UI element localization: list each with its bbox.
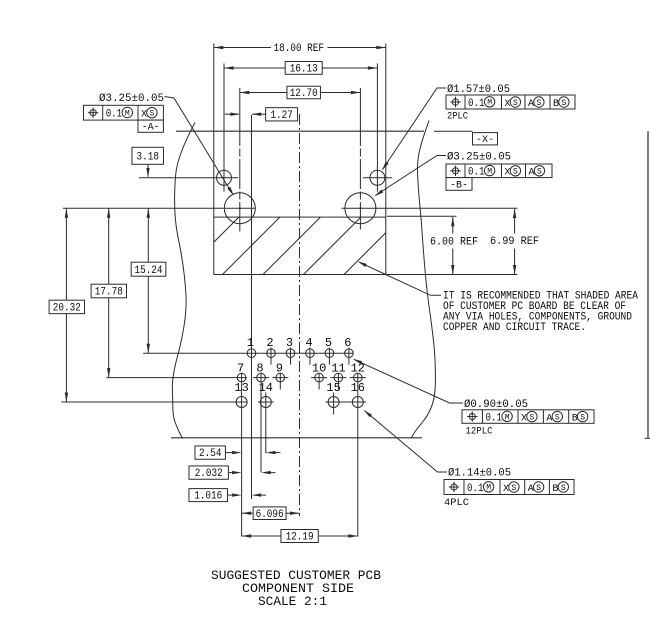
extension line pin 7/13 column xyxy=(241,373,243,537)
dimension 6.096 xyxy=(242,512,254,514)
dimension 17.78 xyxy=(108,208,110,284)
svg-text:0.1: 0.1 xyxy=(468,98,485,110)
pin 13 hole xyxy=(236,397,247,408)
dimension 12.70 xyxy=(240,92,287,94)
svg-text:12.70: 12.70 xyxy=(290,88,318,100)
svg-text:1.016: 1.016 xyxy=(194,491,222,503)
board top edge (left of break) xyxy=(176,130,424,132)
pin 4 hole xyxy=(306,349,315,358)
dimension 1.27 xyxy=(225,113,239,115)
small mounting hole left (dia 1.57) xyxy=(217,170,232,185)
svg-text:S: S xyxy=(536,484,541,493)
svg-text:18.00 REF: 18.00 REF xyxy=(274,43,325,55)
svg-text:15.24: 15.24 xyxy=(135,265,163,277)
svg-text:20.32: 20.32 xyxy=(53,303,81,315)
dimension 6.00 REF extension line bottom (hatch bottom extended) xyxy=(386,274,518,276)
pin 11 hole xyxy=(334,373,343,382)
svg-text:COPPER AND CIRCUIT TRACE.: COPPER AND CIRCUIT TRACE. xyxy=(443,322,586,334)
svg-text:3.18: 3.18 xyxy=(136,151,159,163)
small hole left horizontal centerline / 3.18 extension xyxy=(139,177,238,179)
board bottom edge xyxy=(171,437,422,439)
right break line (wavy) xyxy=(412,121,436,438)
dimension 18.00 REF extension line right xyxy=(385,44,387,218)
svg-text:0.1: 0.1 xyxy=(486,412,503,424)
svg-text:A: A xyxy=(546,413,552,424)
dimension 18.00 REF extension line left xyxy=(213,44,215,218)
svg-text:S: S xyxy=(561,484,566,493)
dimension 16.13 xyxy=(224,67,285,69)
pin horizontal ticks rows 2-3 xyxy=(253,378,366,402)
svg-text:M: M xyxy=(487,99,492,108)
svg-text:4: 4 xyxy=(305,336,312,350)
dimension 2.032 xyxy=(189,466,228,480)
svg-text:S: S xyxy=(149,110,154,119)
svg-text:16.13: 16.13 xyxy=(290,64,318,76)
svg-text:-X-: -X- xyxy=(476,135,494,146)
svg-text:X: X xyxy=(521,413,527,424)
svg-text:12PLC: 12PLC xyxy=(466,426,493,437)
part vertical centerline xyxy=(299,114,301,516)
pin row 2 extension line xyxy=(106,377,247,379)
dimension 6.00 REF extension line top xyxy=(387,215,457,217)
dimension 18.00 REF xyxy=(214,47,271,49)
dimension 1.016 xyxy=(189,489,228,503)
leader to right small hole xyxy=(383,88,446,169)
small hole right horizontal centerline xyxy=(363,177,392,179)
dimension 6.00 REF xyxy=(452,217,454,234)
svg-text:S: S xyxy=(561,99,566,108)
leader to right large hole xyxy=(376,156,447,196)
svg-text:6.00 REF: 6.00 REF xyxy=(430,236,478,248)
svg-text:B: B xyxy=(572,413,578,424)
pin vertical ticks row 1 xyxy=(271,348,349,415)
svg-text:0.1: 0.1 xyxy=(106,109,123,121)
svg-text:-A-: -A- xyxy=(142,123,160,134)
pin 1 hole xyxy=(247,349,256,358)
svg-text:X: X xyxy=(505,99,511,110)
feature control frame (1.14 pins) xyxy=(444,480,574,495)
hatch diagonal lines xyxy=(182,217,403,275)
svg-text:2PLC: 2PLC xyxy=(447,112,468,123)
svg-text:6: 6 xyxy=(344,336,351,350)
svg-text:0.1: 0.1 xyxy=(467,483,484,495)
svg-text:17.78: 17.78 xyxy=(95,287,123,299)
svg-text:1.27: 1.27 xyxy=(270,110,293,122)
svg-text:Ø0.90±0.05: Ø0.90±0.05 xyxy=(464,399,528,411)
svg-text:8: 8 xyxy=(256,362,263,376)
svg-text:X: X xyxy=(505,168,511,179)
large mounting hole right (dia 3.25) xyxy=(345,193,376,224)
datum flag -A- xyxy=(138,120,163,132)
svg-text:S: S xyxy=(536,99,541,108)
dimension 1.27 extension line (pin column 1, full height) xyxy=(251,115,253,499)
pin 15 hole xyxy=(328,397,339,408)
dimension 6.99 REF xyxy=(514,209,516,234)
svg-text:S: S xyxy=(555,413,560,422)
pin 16 hole xyxy=(352,397,363,408)
svg-text:2: 2 xyxy=(266,336,273,350)
svg-text:2.032: 2.032 xyxy=(195,468,223,480)
left break line (wavy) xyxy=(172,123,195,439)
board right edge xyxy=(647,131,649,438)
svg-text:Ø3.25±0.05: Ø3.25±0.05 xyxy=(447,152,511,164)
small hole right vertical centerline / 16.13 extension xyxy=(376,64,378,192)
pin 12 hole xyxy=(354,373,363,382)
leader to left large hole xyxy=(165,97,232,194)
pin 10 hole xyxy=(315,373,324,382)
pin row 1 extension line xyxy=(143,352,353,354)
large hole left vertical centerline / 12.70 extension xyxy=(239,88,241,232)
svg-text:X: X xyxy=(503,484,509,495)
svg-text:S: S xyxy=(537,168,542,177)
note leader to shaded area xyxy=(359,262,441,295)
leader to pin 16 xyxy=(365,411,447,472)
pin 9 hole xyxy=(276,373,285,382)
svg-text:7: 7 xyxy=(237,362,244,376)
svg-text:X: X xyxy=(141,110,147,121)
pin 2 hole xyxy=(267,349,276,358)
svg-text:1: 1 xyxy=(247,336,254,350)
svg-text:M: M xyxy=(487,168,492,177)
svg-text:6.99 REF: 6.99 REF xyxy=(490,236,539,248)
extension line pin 14 column xyxy=(265,393,267,454)
large mounting hole left (dia 3.25) xyxy=(224,193,255,224)
svg-text:12.19: 12.19 xyxy=(286,532,314,544)
pin 5 hole xyxy=(325,349,334,358)
pin 8 hole xyxy=(257,373,266,382)
svg-text:S: S xyxy=(511,484,516,493)
extension line pin 12/16 column xyxy=(357,373,359,537)
svg-text:Ø1.14±0.05: Ø1.14±0.05 xyxy=(448,468,511,480)
small mounting hole right (dia 1.57) xyxy=(370,170,385,185)
extension line pin 8 column xyxy=(260,373,262,473)
leader to pin 6 xyxy=(354,359,463,403)
feature control frame (right large hole) xyxy=(446,164,552,179)
horizontal line through large hole centers (right segment, 6.99 extension) xyxy=(342,207,518,209)
large hole right vertical centerline / 12.70 extension xyxy=(359,88,361,230)
dimension 3.18 xyxy=(132,147,164,164)
svg-text:9: 9 xyxy=(276,362,283,376)
svg-text:5: 5 xyxy=(325,336,332,350)
datum flag -X- xyxy=(473,133,498,145)
board top edge (right of break, to datum X flag) xyxy=(434,130,473,132)
svg-text:4PLC: 4PLC xyxy=(444,498,469,509)
pin 6 hole xyxy=(345,349,354,358)
svg-text:S: S xyxy=(529,413,534,422)
pin 3 hole xyxy=(286,349,295,358)
svg-text:Ø1.57±0.05: Ø1.57±0.05 xyxy=(447,84,510,96)
dimension 12.19 xyxy=(242,535,281,537)
svg-text:S: S xyxy=(513,168,518,177)
feature control frame (0.90 pins) xyxy=(462,410,594,425)
svg-text:B: B xyxy=(552,484,558,495)
svg-text:A: A xyxy=(528,484,534,495)
svg-text:3: 3 xyxy=(286,336,293,350)
pin 7 hole xyxy=(237,373,246,382)
datum flag -B- xyxy=(446,178,472,191)
pin row 3 extension line xyxy=(61,401,247,403)
svg-text:Ø3.25±0.05: Ø3.25±0.05 xyxy=(99,93,164,105)
board bottom edge right nub xyxy=(645,437,650,439)
feature control frame (small holes) xyxy=(446,95,575,110)
svg-text:M: M xyxy=(505,413,510,422)
dimension 2.54 xyxy=(195,446,225,460)
small hole left vertical centerline / 16.13 extension xyxy=(223,64,225,192)
svg-text:M: M xyxy=(486,484,491,493)
svg-text:S: S xyxy=(580,413,585,422)
pin 14 hole xyxy=(260,397,271,408)
horizontal line through large hole centers (left segment) xyxy=(63,207,255,209)
svg-text:A: A xyxy=(529,168,535,179)
svg-text:-B-: -B- xyxy=(450,181,468,192)
svg-text:M: M xyxy=(125,109,130,118)
svg-text:6.096: 6.096 xyxy=(256,509,284,521)
svg-text:B: B xyxy=(553,99,559,110)
dimension 15.24 xyxy=(147,208,149,262)
shaded keep-out area rectangle xyxy=(214,217,386,274)
dimension 20.32 xyxy=(65,208,67,300)
feature control frame (left hole) xyxy=(84,105,164,120)
svg-text:SCALE 2:1: SCALE 2:1 xyxy=(258,594,327,609)
svg-text:2.54: 2.54 xyxy=(199,448,222,460)
svg-text:A: A xyxy=(528,99,534,110)
svg-text:0.1: 0.1 xyxy=(468,167,485,179)
svg-text:S: S xyxy=(513,99,518,108)
